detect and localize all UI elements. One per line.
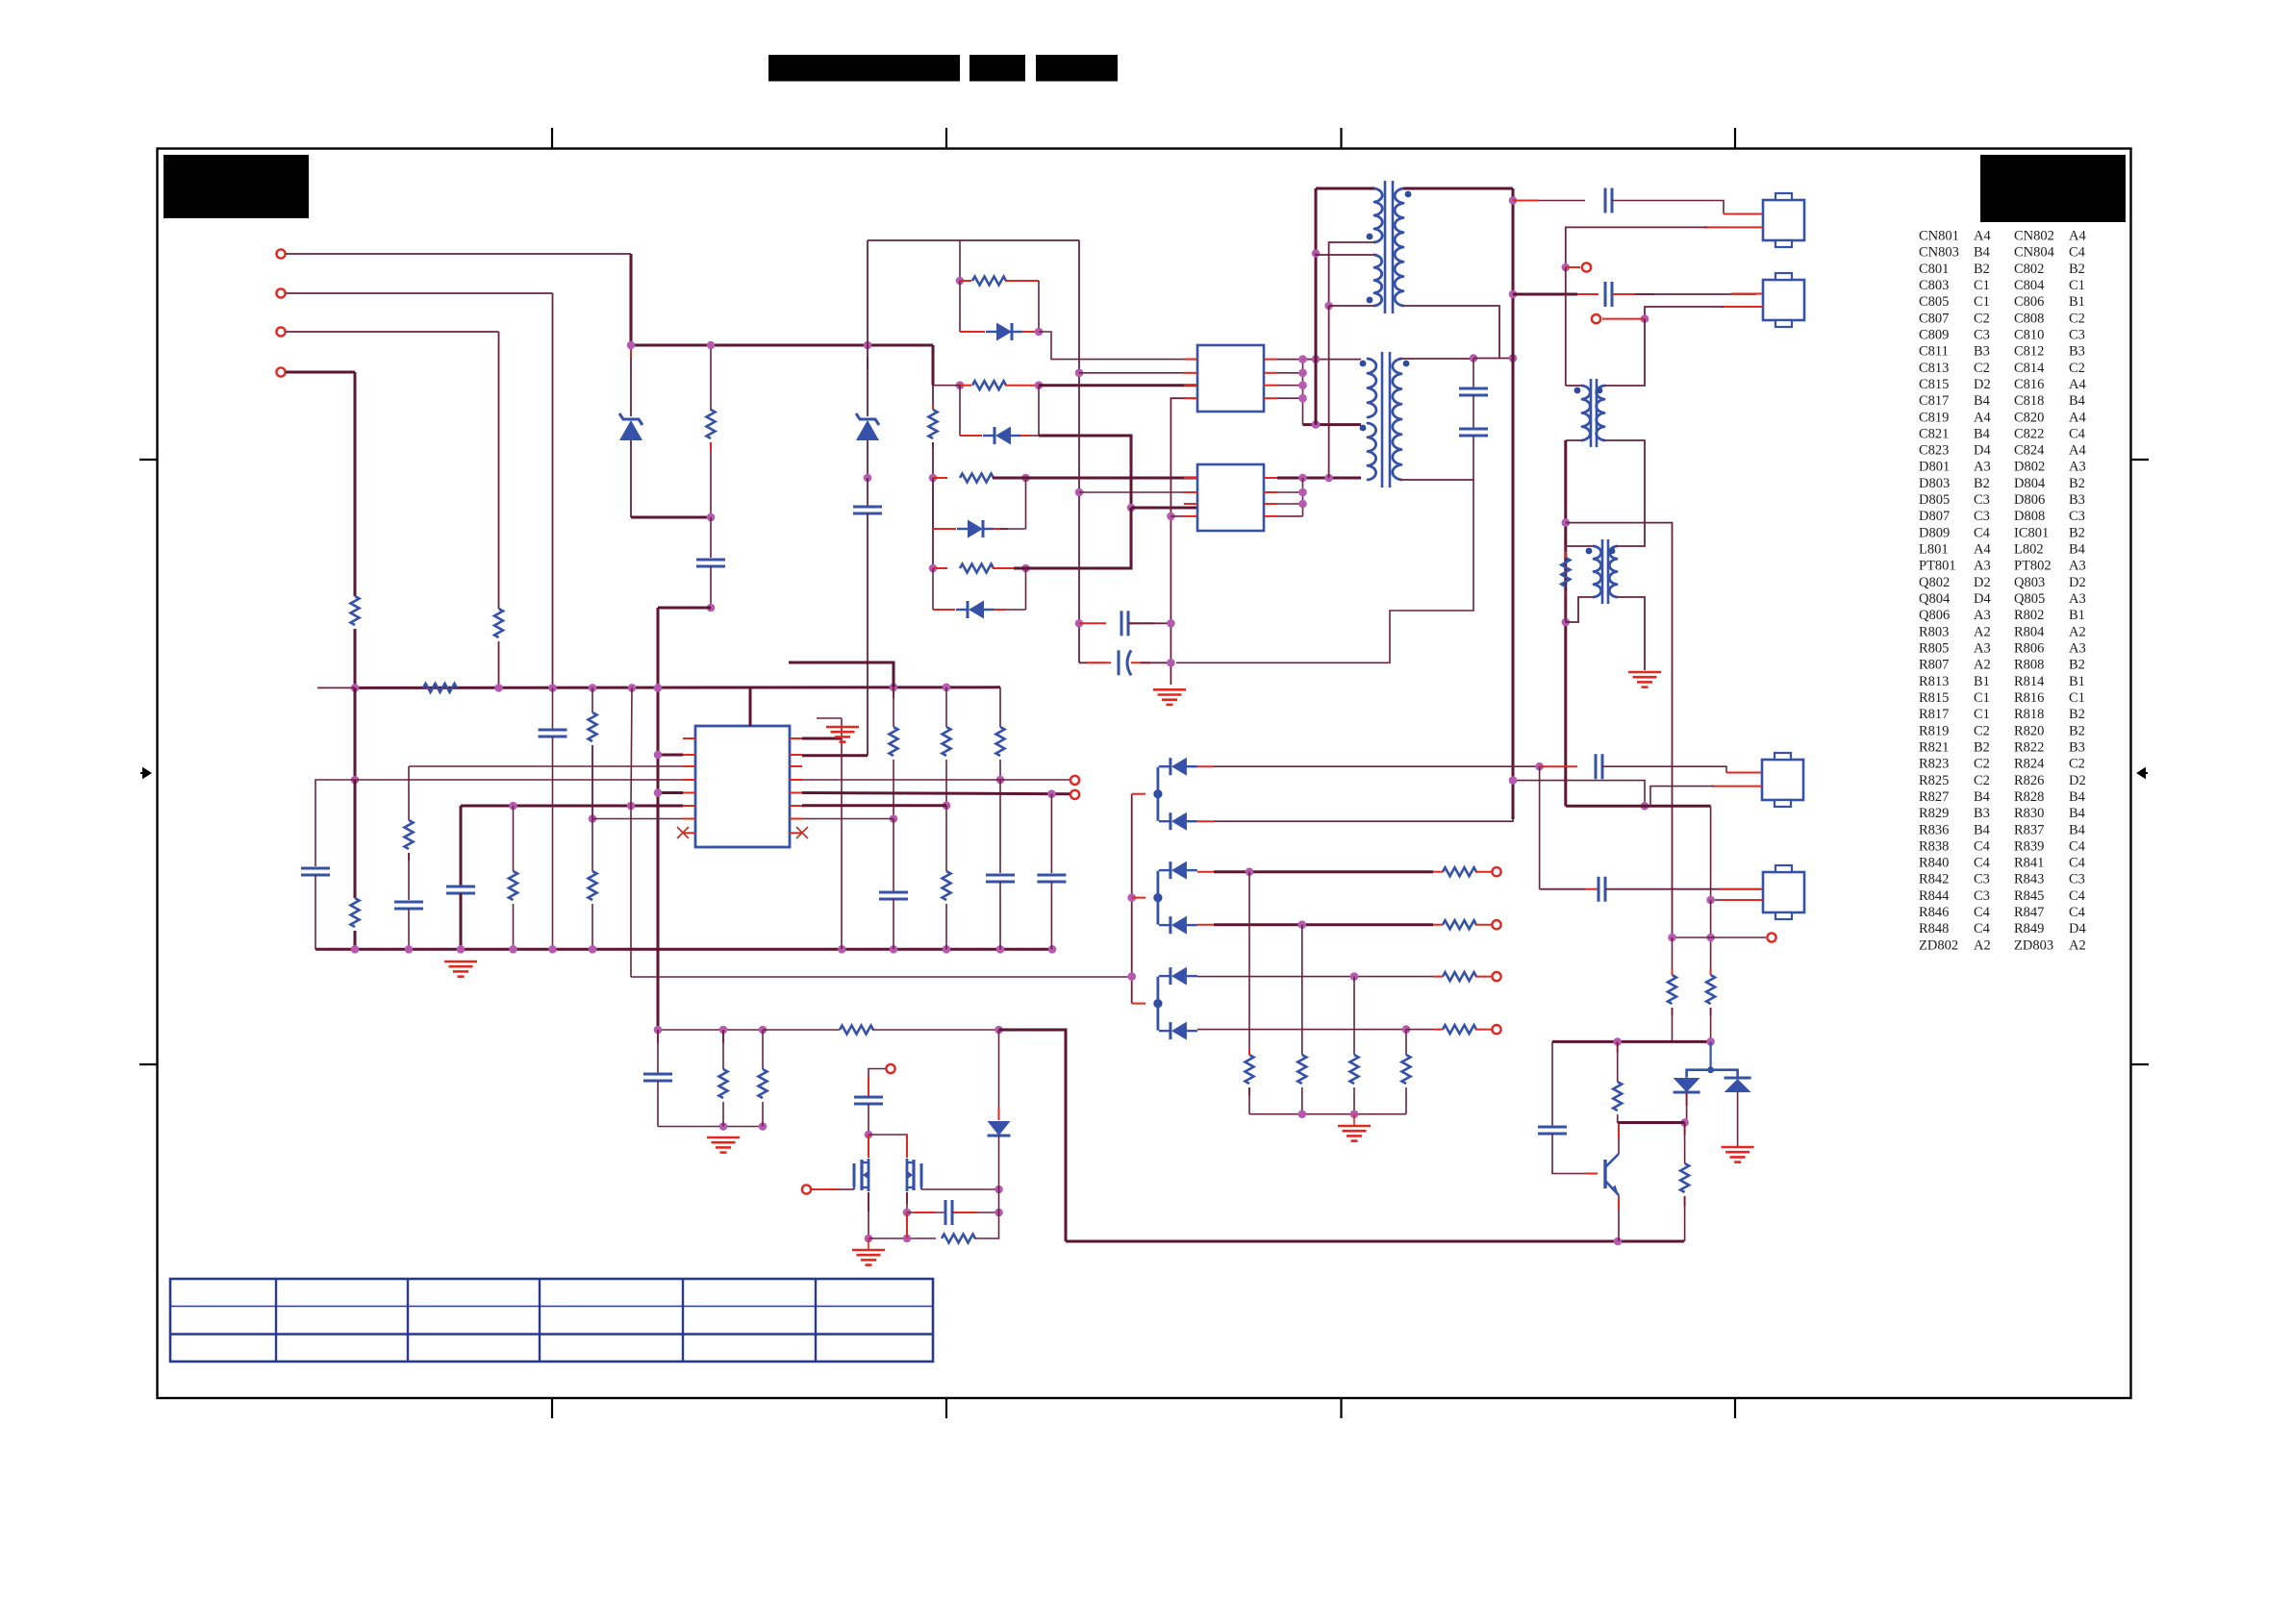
wire terminal3 (286, 331, 499, 333)
wire ground row y1158 (1249, 1113, 1406, 1115)
wire terminal4 (286, 371, 355, 374)
svg-text:C814: C814 (2014, 361, 2045, 376)
svg-text:A3: A3 (2069, 460, 2086, 475)
node gnd row (719, 1122, 728, 1131)
svg-text:D4: D4 (1974, 591, 1991, 607)
svg-text:B4: B4 (1974, 426, 1991, 441)
resistor R826 x793 (762, 1030, 764, 1069)
wire x1778 middle section (1710, 900, 1712, 975)
svg-text:A3: A3 (1974, 559, 1991, 574)
wire pair1 right rail (1038, 281, 1040, 332)
node pair2 right (1035, 381, 1044, 389)
wire y851 to IC (592, 818, 683, 820)
svg-text:Q804: Q804 (1919, 591, 1951, 607)
small transformer T2 right winding (1597, 386, 1604, 440)
node y797 (1535, 762, 1544, 771)
redacted block top-left (164, 155, 309, 218)
wire L801 A-bottom lead (1329, 242, 1374, 306)
ground below dual diode (1722, 1146, 1754, 1149)
svg-text:D2: D2 (1974, 575, 1991, 590)
node L801 tap (1312, 249, 1321, 258)
wire x684 branches to IC (658, 754, 683, 757)
wire row372 to x1573 (1473, 358, 1513, 360)
capacitor C811 (986, 874, 1015, 877)
wire IC pin838 right (802, 804, 946, 807)
ground below load resistors (1338, 1125, 1371, 1128)
svg-text:R845: R845 (2014, 888, 2044, 904)
wire to PT802 pin3 (1131, 507, 1197, 510)
wire y632 (658, 607, 711, 610)
capacitor C810 x929 (879, 891, 908, 894)
svg-text:C2: C2 (1974, 311, 1990, 326)
wire y811 to IC (355, 779, 683, 781)
wire ground bus y987 (315, 948, 1052, 951)
wire Q802 source down (868, 1192, 869, 1212)
node row1016 (1350, 972, 1359, 981)
wire C817 to CN801 (1602, 766, 1726, 772)
svg-text:R848: R848 (1919, 921, 1949, 937)
diode D810 (1169, 967, 1171, 985)
node x533 (509, 802, 517, 811)
transformer PT801-drive winding left (1582, 386, 1590, 440)
svg-text:C3: C3 (2069, 328, 2085, 343)
node y647 (1562, 618, 1571, 627)
wire PT802 right rail (1302, 478, 1304, 516)
svg-text:D807: D807 (1919, 509, 1950, 524)
diode D808 (1169, 916, 1171, 934)
alignment arrow right (2138, 769, 2148, 778)
wire terminal to cap (869, 1069, 886, 1097)
open terminal -OUT2 (1492, 920, 1500, 929)
svg-text:R813: R813 (1919, 674, 1949, 689)
svg-text:B1: B1 (1974, 674, 1990, 689)
transformer L802 winding A (1368, 359, 1376, 417)
svg-text:B1: B1 (2069, 294, 2085, 310)
open terminal OUT2 (1070, 790, 1079, 799)
resistor R824 (840, 1026, 873, 1035)
diode D804 (1169, 812, 1171, 830)
node rail387 (1298, 369, 1307, 378)
wire x970 to pair2 (933, 385, 960, 387)
node C815 left (1075, 619, 1084, 628)
node row1070 (1402, 1025, 1411, 1034)
wire gate Q802 (839, 1188, 854, 1190)
svg-text:D4: D4 (2069, 921, 2086, 937)
capacitor C820 x1614 (1551, 1041, 1553, 1126)
wire Q803 source down (906, 1192, 908, 1204)
wire pair4 right rail (1025, 568, 1027, 610)
wire T2 right-top lead (1604, 319, 1645, 386)
svg-text:ZD802: ZD802 (1919, 937, 1958, 953)
open terminal drain supply (886, 1064, 894, 1073)
svg-text:D2: D2 (1974, 377, 1991, 392)
wire terminal1 to x656 (286, 253, 631, 255)
node snubber top (1470, 354, 1478, 362)
diode right (reverse) (1725, 1077, 1751, 1080)
vertical x425 with R and C (408, 766, 410, 820)
IC801 unused pin X marks (677, 827, 689, 838)
wire y838 to IC (461, 805, 683, 808)
diode D805 (968, 520, 983, 538)
node rail400 (1298, 381, 1307, 389)
node bus x984 (943, 684, 951, 692)
wire Q806 emitter to bus (1618, 1195, 1620, 1241)
wire x1368 down (1315, 188, 1318, 425)
wire y689 top link (789, 662, 894, 687)
diode D812 (1169, 1022, 1171, 1039)
svg-text:B4: B4 (1974, 822, 1991, 837)
svg-text:C2: C2 (2069, 757, 2085, 772)
wire y1016 to diode bank (631, 976, 1132, 978)
wire IC top area to resistor chain (802, 737, 842, 740)
connector CN804 (1763, 872, 1804, 912)
svg-text:PT802: PT802 (2014, 559, 2052, 574)
node collector feed (1613, 1037, 1622, 1046)
svg-text:R818: R818 (2014, 707, 2044, 722)
svg-text:C3: C3 (2069, 872, 2085, 887)
capacitor C809 chain (710, 517, 712, 558)
svg-text:C4: C4 (2069, 905, 2086, 920)
capacitor C824 between sources (907, 1212, 945, 1213)
svg-text:Q803: Q803 (2014, 575, 2045, 590)
svg-text:B4: B4 (2069, 393, 2086, 409)
transformer L801 primary winding B (1374, 255, 1382, 306)
svg-text:A4: A4 (2069, 377, 2086, 392)
wire L801 A-top lead (1316, 187, 1374, 190)
node pair1 (956, 277, 965, 286)
open terminal B (1592, 314, 1600, 323)
wire y1071 corner down to bottom bus (999, 1030, 1067, 1241)
wire top bus y715 (355, 686, 1000, 689)
wire L801 B-bottom lead (1329, 305, 1374, 307)
diode ZD/D left (1674, 1078, 1700, 1092)
resistor R849 (942, 1235, 975, 1243)
svg-text:A4: A4 (2069, 443, 2086, 459)
node Q803 gate (994, 1186, 1003, 1194)
svg-text:R817: R817 (1919, 707, 1949, 722)
node x684-y824 (654, 788, 663, 797)
wire Q806 collector (1618, 1123, 1620, 1155)
svg-text:R836: R836 (1919, 822, 1949, 837)
svg-text:R824: R824 (2014, 757, 2045, 772)
diode D806 (1169, 862, 1171, 879)
zener diode ZD803 (867, 345, 869, 416)
vertical x479 thick with cap (460, 806, 463, 887)
wire rail x1122 (1078, 240, 1080, 662)
wire pair3 to PT802 pin1 (993, 477, 1197, 480)
svg-text:D802: D802 (2014, 460, 2045, 475)
svg-text:A2: A2 (1974, 624, 1991, 639)
wire x1038 gate rail (998, 1189, 1000, 1212)
capacitor C804 column x574 (552, 687, 554, 730)
svg-text:R839: R839 (2014, 838, 2044, 854)
wire y924 row (1540, 888, 1585, 890)
wire bank row 1016 output (1197, 976, 1433, 978)
svg-text:C802: C802 (2014, 262, 2044, 277)
wire x1738 down (1645, 523, 1673, 937)
wire x970 to pair4 (932, 478, 934, 568)
wire x684 long vertical (657, 608, 660, 1030)
svg-text:C3: C3 (2069, 509, 2085, 524)
wire y250 top loop (868, 239, 1079, 241)
wire x902 upper (867, 240, 869, 345)
resistor R820 column x616 lower (589, 871, 597, 900)
wire x970 corner down (932, 345, 935, 386)
wire pair2 right rail (1038, 386, 1040, 436)
svg-text:D804: D804 (2014, 476, 2046, 491)
svg-text:C808: C808 (2014, 311, 2044, 326)
node y543 (1562, 518, 1571, 527)
capacitor C822 (1598, 877, 1600, 902)
capacitor C814 on x684 (657, 1030, 659, 1043)
svg-text:B2: B2 (2069, 723, 2085, 738)
node x369-y811 (351, 776, 360, 785)
input terminal 4 (276, 367, 285, 376)
svg-text:CN803: CN803 (1919, 245, 1959, 261)
border frame (158, 149, 2131, 1399)
wire x518 down (498, 332, 500, 609)
svg-text:C4: C4 (2069, 426, 2086, 441)
svg-text:B3: B3 (1974, 344, 1990, 360)
open terminal Q802 gate (802, 1185, 811, 1193)
svg-text:C1: C1 (2069, 278, 2085, 293)
svg-text:C807: C807 (1919, 311, 1949, 326)
svg-text:C817: C817 (1919, 393, 1949, 409)
wire bus y359 (631, 344, 933, 347)
resistor R802 in bus (423, 684, 457, 692)
node rail-PT802 pin2 (1075, 488, 1084, 497)
frame tick marks (551, 128, 553, 148)
wire to IC801 right pin 785 (802, 754, 868, 757)
node L801 B-bottom (1324, 302, 1333, 311)
connector CN802 (1763, 200, 1804, 240)
wire y1171 row (658, 1126, 763, 1128)
wire x1600 down to C822 (1539, 766, 1541, 889)
svg-text:A4: A4 (2069, 410, 2086, 425)
MOSFET Q803 (912, 1160, 915, 1190)
node bank low (1127, 972, 1136, 981)
svg-text:R830: R830 (2014, 806, 2044, 821)
node cap bottom (707, 604, 716, 612)
input terminal 3 (276, 327, 285, 336)
svg-text:C4: C4 (2069, 856, 2086, 871)
svg-text:B2: B2 (1974, 262, 1990, 277)
input terminal CN/pin 1 (276, 249, 285, 258)
capacitor C805 (394, 901, 423, 904)
wire CN804 pin2 (1722, 899, 1763, 901)
capacitor C801 (1604, 188, 1607, 213)
svg-text:C3: C3 (1974, 492, 1990, 508)
svg-text:A3: A3 (2069, 591, 2086, 607)
wire y838 row (1566, 805, 1711, 808)
svg-text:A3: A3 (1974, 641, 1991, 657)
svg-text:B1: B1 (2069, 674, 2085, 689)
svg-text:D805: D805 (1919, 492, 1950, 508)
svg-text:A2: A2 (1974, 658, 1991, 673)
wire x656 down to node (630, 254, 633, 345)
wire CN803 pin2 return (1722, 306, 1763, 308)
resistor R803 (494, 609, 503, 637)
node pair4 right (1021, 564, 1030, 573)
resistor R827 (996, 727, 1005, 756)
node x984-y838 (943, 801, 951, 810)
svg-text:C805: C805 (1919, 294, 1949, 310)
svg-text:R814: R814 (2014, 674, 2045, 689)
svg-text:C3: C3 (1974, 328, 1990, 343)
node PT802 pin3 (1127, 504, 1136, 512)
svg-text:C4: C4 (1974, 525, 1991, 540)
transformer L802 secondary winding (1393, 359, 1401, 480)
wire x1381 down to PT802 row (1328, 306, 1330, 478)
wire pair1 left rail (959, 240, 961, 281)
svg-text:Q806: Q806 (1919, 608, 1950, 623)
svg-text:B4: B4 (1974, 245, 1991, 261)
svg-text:C3: C3 (1974, 888, 1990, 904)
svg-text:B2: B2 (2069, 658, 2085, 673)
node bus x574 (548, 684, 557, 692)
svg-text:B2: B2 (2069, 525, 2085, 540)
wire T2 left-bottom lead (1566, 439, 1582, 441)
capacitor C803 column (315, 780, 355, 866)
node rail414 (1298, 394, 1307, 403)
node row907 (1246, 867, 1254, 876)
svg-text:C4: C4 (2069, 245, 2086, 261)
capacitor C815 (1120, 611, 1123, 636)
wire x574 down to bus (552, 293, 554, 687)
diode D809 (998, 1030, 1000, 1120)
svg-text:R826: R826 (2014, 773, 2044, 788)
node rail512 (1298, 488, 1307, 497)
wire pair1 to PT801 pin1 (1039, 332, 1197, 360)
capacitor C816 (polar) (1079, 662, 1106, 663)
svg-text:R825: R825 (1919, 773, 1949, 788)
wire L802 secondary top lead (1401, 358, 1473, 360)
resistor R806 (929, 410, 938, 438)
wire x1627 down long (1564, 440, 1567, 806)
node x684-y1071 (654, 1026, 663, 1035)
svg-text:C812: C812 (2014, 344, 2044, 360)
svg-text:R837: R837 (2014, 822, 2044, 837)
wire y797 to IC (409, 765, 683, 767)
svg-text:C4: C4 (1974, 856, 1991, 871)
svg-text:C2: C2 (1974, 773, 1990, 788)
wire to PT801 pin2 (1079, 372, 1197, 374)
svg-text:B4: B4 (1974, 789, 1991, 805)
wire x1627 upper (1565, 267, 1567, 386)
dual diode junction (1709, 1041, 1711, 1069)
wire y1071 to resistor (763, 1029, 840, 1031)
svg-text:A3: A3 (1974, 460, 1991, 475)
redacted block top-right (1980, 155, 2126, 222)
load resistor R843 x1408 (1353, 977, 1355, 1055)
connector CN803 (1763, 280, 1804, 320)
svg-text:R804: R804 (2014, 624, 2045, 639)
resistor chain x1040 (999, 687, 1001, 727)
node MOSFET drains (865, 1131, 873, 1139)
node ZD803 bottom (864, 474, 872, 483)
svg-text:D4: D4 (1974, 443, 1991, 459)
resistor R848 x1778 (1710, 969, 1712, 975)
node bus x684 (654, 684, 663, 692)
svg-text:R821: R821 (1919, 740, 1949, 756)
wire x1573 main vertical (1512, 188, 1515, 819)
resistor R816 (960, 564, 994, 573)
svg-text:A2: A2 (2069, 937, 2086, 953)
connector CN801 (1762, 760, 1803, 800)
svg-text:C3: C3 (1974, 509, 1990, 524)
svg-text:A4: A4 (1974, 410, 1991, 425)
load resistor R845 x1462 (1405, 1030, 1407, 1055)
load resistor R841 x1354 (1301, 925, 1303, 1055)
svg-text:B2: B2 (1974, 476, 1990, 491)
svg-text:ZD803: ZD803 (2014, 937, 2053, 953)
capacitor C813 (867, 478, 869, 507)
svg-text:C815: C815 (1919, 377, 1949, 392)
wire pair4 up to PT802 pin3 node (1014, 508, 1131, 568)
wire bus left stub (317, 687, 355, 688)
node x752-y1071 (719, 1026, 728, 1035)
svg-text:R843: R843 (2014, 872, 2044, 887)
resistor R818 column (513, 806, 515, 871)
svg-text:R829: R829 (1919, 806, 1949, 821)
diode D803 (994, 427, 996, 444)
resistor R823 x984 lower (943, 871, 951, 900)
svg-text:IC801: IC801 (2014, 525, 2049, 540)
open terminal -OUT1 (1492, 867, 1500, 876)
capacitor C812 (1037, 874, 1066, 877)
MOSFET Q802 (860, 1160, 863, 1190)
svg-text:C4: C4 (1974, 905, 1991, 920)
svg-text:C1: C1 (2069, 690, 2085, 706)
zener diode ZD802 (630, 358, 632, 416)
wire T2 left-top lead (1566, 385, 1582, 387)
driver transformer L802b left winding (1594, 546, 1601, 597)
svg-text:D806: D806 (2014, 492, 2045, 508)
svg-text:D803: D803 (1919, 476, 1950, 491)
open terminal -OUT3 (1492, 972, 1500, 981)
wire y1167 row (1618, 1121, 1685, 1124)
svg-text:C4: C4 (2069, 888, 2086, 904)
wire to PT802 pin4 (1171, 515, 1197, 517)
svg-text:C813: C813 (1919, 361, 1949, 376)
svg-text:B4: B4 (2069, 806, 2086, 821)
node terminal A (1562, 263, 1571, 272)
wire L801 B-top lead (1316, 254, 1374, 256)
svg-text:L802: L802 (2014, 542, 2044, 558)
svg-text:C1: C1 (1974, 690, 1990, 706)
wire pair2 to PT801 pin3 (1039, 384, 1197, 387)
svg-text:B4: B4 (2069, 822, 2086, 837)
svg-text:B2: B2 (1974, 740, 1990, 756)
svg-text:A2: A2 (1974, 937, 1991, 953)
svg-text:A3: A3 (2069, 641, 2086, 657)
node x616-y851 (589, 814, 597, 823)
wire pair2 left down (959, 386, 961, 436)
svg-text:C1: C1 (1974, 294, 1990, 310)
svg-text:B4: B4 (2069, 789, 2086, 805)
wire y1288 row with resistor (869, 1237, 936, 1239)
resistor R822 x984 (945, 687, 947, 727)
svg-text:A4: A4 (2069, 229, 2086, 244)
wire L801 secondary bottom lead (1403, 306, 1499, 359)
svg-text:B2: B2 (2069, 707, 2085, 722)
resistor R815 (960, 474, 994, 483)
diode D801 (996, 323, 1012, 341)
node x1573-y811 (1509, 776, 1518, 785)
wire IC pin811 right to terminal (802, 779, 1070, 781)
transformer L802 winding B (1368, 423, 1376, 480)
node x1738-y975 (1668, 934, 1676, 942)
